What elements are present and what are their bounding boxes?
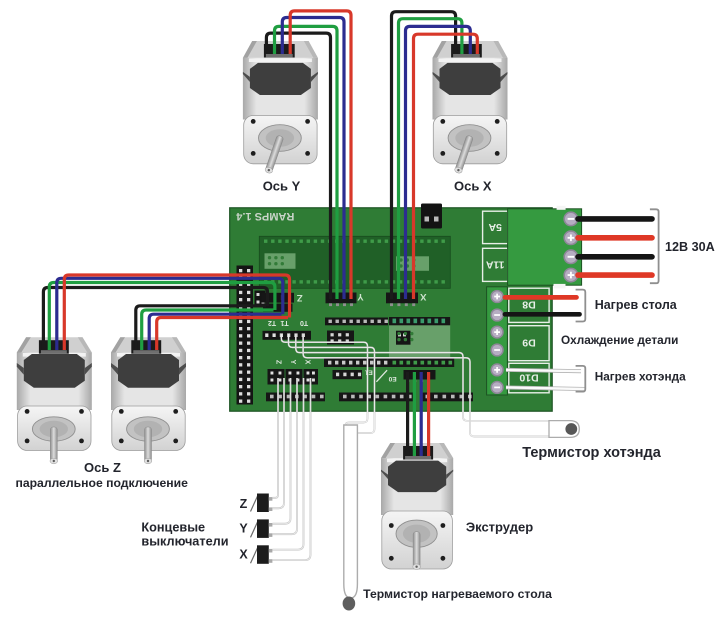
motor connector Z axis 1 xyxy=(39,340,69,354)
svg-text:D10: D10 xyxy=(519,371,538,383)
left dual-row pin header xyxy=(237,266,254,405)
stepper motor extruder xyxy=(381,443,453,570)
E0 socket xyxy=(404,370,436,382)
svg-text:Ось Z: Ось Z xyxy=(84,460,121,475)
output terminal block D8 D9 D10 xyxy=(487,287,508,395)
bed thermistor xyxy=(343,425,358,611)
svg-text:Экструдер: Экструдер xyxy=(466,520,533,535)
svg-text:Z: Z xyxy=(274,360,281,365)
RAMPS 1.4 board xyxy=(230,208,553,411)
wire extruder green xyxy=(413,372,416,456)
svg-text:Z: Z xyxy=(297,292,303,303)
wire X motor green xyxy=(399,19,462,299)
power select jumper xyxy=(421,204,442,229)
wire endstop wire 3 xyxy=(273,378,291,524)
endstop switch Y xyxy=(251,519,273,538)
svg-text:12В 30А: 12В 30А xyxy=(665,240,715,254)
Y motor socket xyxy=(326,293,357,307)
wire extruder red xyxy=(427,372,430,456)
output box D9 xyxy=(509,326,549,361)
motor connector X axis xyxy=(451,44,482,58)
wire Y motor red xyxy=(290,11,351,299)
wire power wire black 2 xyxy=(578,254,652,260)
wire power wire red 1 xyxy=(578,235,652,241)
wire Y motor green xyxy=(275,26,338,299)
svg-text:T1: T1 xyxy=(280,319,288,326)
wire hotend heater wire 2 xyxy=(506,387,585,389)
endstop switch Z xyxy=(251,494,273,513)
Z motor sockets xyxy=(262,293,295,312)
svg-text:E0: E0 xyxy=(388,375,396,382)
fuse box 5A xyxy=(483,211,508,243)
svg-text:X: X xyxy=(239,548,248,562)
hotend thermistor xyxy=(549,421,579,438)
stepper motor Z axis 1 xyxy=(17,337,92,464)
wire Z motor1 blue xyxy=(57,278,283,350)
wire Z motor1 green xyxy=(49,283,275,351)
bracket bed heater xyxy=(576,290,586,322)
svg-text:параллельное подключение: параллельное подключение xyxy=(15,476,188,490)
wire endstop wire 4 xyxy=(273,378,298,534)
stepper motor X axis xyxy=(433,41,508,174)
svg-text:X: X xyxy=(304,360,311,365)
svg-text:Z: Z xyxy=(240,497,248,511)
bracket 12V 30A xyxy=(650,209,659,283)
wire bed thermistor lead 2 xyxy=(289,334,375,433)
svg-text:выключатели: выключатели xyxy=(141,535,228,549)
pad strip xyxy=(325,318,388,326)
svg-text:T0: T0 xyxy=(300,319,308,326)
wire endstop wire 2 xyxy=(273,378,285,508)
header pad rows xyxy=(264,240,445,284)
silkscreen E1 E0 xyxy=(364,369,396,382)
wire extruder blue xyxy=(420,372,423,456)
wire endstop wire 1 xyxy=(273,378,279,498)
wire bed heater red xyxy=(505,295,577,300)
svg-text:Нагрев стола: Нагрев стола xyxy=(595,298,678,312)
output box D10 xyxy=(509,363,549,393)
wire power wire red 2 xyxy=(578,272,652,278)
silkscreen T2 T1 T0 xyxy=(268,319,308,326)
wire Z motor2 blue xyxy=(149,314,281,350)
svg-text:Термистор хотэнда: Термистор хотэнда xyxy=(522,445,661,461)
svg-text:T2: T2 xyxy=(268,319,276,326)
E1 socket xyxy=(333,370,363,379)
svg-text:Концевые: Концевые xyxy=(141,521,205,535)
stepper motor Z axis 2 xyxy=(111,337,186,464)
endstop connector block xyxy=(268,369,319,385)
svg-text:Ось X: Ось X xyxy=(454,179,492,194)
jumper block xyxy=(255,291,266,308)
pin block xyxy=(327,331,354,345)
svg-text:Охлаждение детали: Охлаждение детали xyxy=(561,333,678,347)
recessed driver area xyxy=(259,236,450,288)
stepper motor Y axis xyxy=(243,41,318,174)
svg-text:Термистор нагреваемого стола: Термистор нагреваемого стола xyxy=(363,587,552,601)
wire Z motor2 green xyxy=(142,310,274,350)
svg-text:D9: D9 xyxy=(522,337,536,349)
pad row mid xyxy=(324,358,454,367)
motor connector extruder xyxy=(403,446,433,460)
wire endstop wire 6 xyxy=(273,378,311,560)
wire extruder black xyxy=(406,372,409,456)
bottom pad rows xyxy=(266,393,473,402)
wire bed heater black xyxy=(505,312,580,317)
wire bed thermistor lead 1 xyxy=(281,334,367,430)
wire Z motor2 red xyxy=(157,318,288,351)
svg-text:Y: Y xyxy=(239,522,248,536)
output box D8 xyxy=(509,288,549,322)
svg-text:11A: 11A xyxy=(485,258,504,270)
wire X motor black xyxy=(392,12,456,299)
wire hotend thermistor lead 2 xyxy=(303,334,551,437)
wire Y motor blue xyxy=(282,18,344,300)
svg-text:5A: 5A xyxy=(488,221,502,233)
svg-text:RAMPS 1.4: RAMPS 1.4 xyxy=(235,210,294,222)
svg-text:X: X xyxy=(419,291,426,302)
svg-text:Нагрев хотэнда: Нагрев хотэнда xyxy=(595,369,686,383)
thermistor connector T2 T1 T0 xyxy=(263,331,312,340)
motor connector Y axis xyxy=(264,44,295,58)
wire X motor blue xyxy=(406,26,471,299)
wire Z motor1 black xyxy=(43,288,267,351)
bracket hotend heater xyxy=(576,366,586,392)
driver module (X) xyxy=(396,256,429,271)
wire power wire black 1 xyxy=(578,216,652,222)
power terminal block xyxy=(508,206,582,289)
wire X motor red xyxy=(414,34,478,299)
svg-text:Ось Y: Ось Y xyxy=(263,179,301,194)
fuse box 11A xyxy=(483,248,508,281)
wire Z motor2 black xyxy=(136,306,266,350)
X motor socket xyxy=(386,293,418,307)
driver module (upper left) xyxy=(265,253,296,268)
motor connector Z axis 2 xyxy=(131,340,161,354)
svg-text:Y: Y xyxy=(289,360,296,365)
wire hotend thermistor lead 1 xyxy=(296,334,552,421)
svg-text:D8: D8 xyxy=(522,299,536,311)
driver module E0 xyxy=(389,317,450,358)
svg-text:E1: E1 xyxy=(364,369,372,376)
wire endstop wire 5 xyxy=(273,378,304,550)
wire hotend heater wire 1 xyxy=(506,370,581,371)
endstop switch X xyxy=(251,545,273,564)
wire Y motor black xyxy=(266,33,330,299)
wire Z motor1 red xyxy=(64,275,289,350)
silkscreen endstop Z Y X xyxy=(274,360,310,365)
svg-text:Y: Y xyxy=(357,291,364,302)
